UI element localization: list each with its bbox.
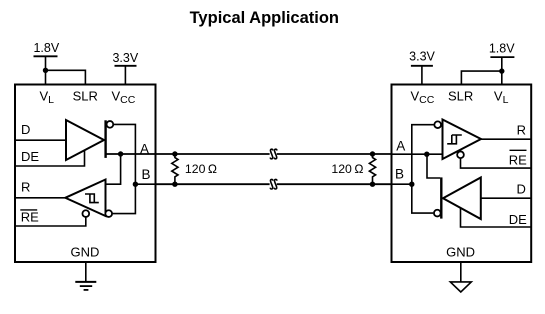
wire pin DE to driver enable (right) bbox=[461, 209, 531, 228]
wire B net vertical and to receiver inverting input bbox=[412, 125, 434, 213]
wire A net inside left IC bbox=[106, 153, 156, 155]
svg-text:1.8V: 1.8V bbox=[33, 41, 59, 55]
node A junction (left) bbox=[118, 151, 123, 156]
break symbol on bus A bbox=[270, 149, 277, 159]
wire bus line B bbox=[156, 183, 270, 185]
svg-text:B: B bbox=[395, 167, 404, 182]
driver U2 triangle bbox=[443, 178, 481, 220]
node A junction (right) bbox=[424, 152, 429, 157]
wire driver bubble to B net bbox=[113, 124, 136, 213]
driver U2 inverting bubble bbox=[434, 210, 441, 217]
wire A to receiver input bbox=[106, 154, 121, 184]
svg-text:3.3V: 3.3V bbox=[409, 50, 435, 64]
wire receiver output to pin R bbox=[481, 138, 531, 140]
wire GND pin down bbox=[85, 262, 87, 282]
receiver U2 enable bubble bbox=[457, 151, 464, 158]
wire junction to SLR pin (right) bbox=[461, 71, 501, 84]
svg-text:GND: GND bbox=[446, 244, 475, 259]
wire junction to SLR pin bbox=[46, 70, 86, 84]
svg-text:SLR: SLR bbox=[73, 89, 98, 104]
svg-text:D: D bbox=[517, 182, 526, 197]
receiver U2 inverting input bubble bbox=[434, 121, 441, 128]
wire RE to receiver enable (right) bbox=[461, 158, 531, 168]
svg-text:120 Ω: 120 Ω bbox=[331, 162, 363, 176]
svg-text:D: D bbox=[21, 122, 30, 137]
wire B pin to vertical bbox=[392, 183, 412, 185]
svg-text:DE: DE bbox=[21, 149, 39, 164]
driver U1 output bar bbox=[104, 120, 106, 158]
node junction 1.8V/SLR (right) bbox=[499, 68, 504, 73]
break symbol on bus B bbox=[270, 179, 277, 189]
svg-text:RE: RE bbox=[509, 153, 527, 168]
svg-text:R: R bbox=[517, 122, 526, 137]
receiver U1 hysteresis symbol bbox=[85, 194, 99, 203]
driver U1 triangle bbox=[66, 120, 104, 160]
svg-text:3.3V: 3.3V bbox=[112, 51, 138, 65]
resistor R1 120 ohm (left termination) bbox=[172, 151, 218, 187]
node B junction (right) bbox=[409, 182, 414, 187]
svg-text:RE: RE bbox=[21, 210, 39, 225]
wire 3.3V to VCC pin bbox=[124, 66, 126, 85]
wire 1.8V to VL pin (right) bbox=[501, 57, 503, 84]
wire pin D (right) bbox=[481, 197, 531, 199]
wire pin DE to driver enable bbox=[16, 149, 85, 166]
svg-text:GND: GND bbox=[71, 244, 100, 259]
wire pin D bbox=[16, 139, 66, 141]
driver U2 output bar bbox=[440, 177, 442, 218]
wire GND pin down (right) bbox=[460, 262, 462, 282]
supply 1.8V (left) bbox=[33, 41, 59, 56]
node B junction (left) bbox=[133, 182, 138, 187]
supply 1.8V (right) bbox=[489, 41, 515, 57]
wire 3.3V to VCC pin (right) bbox=[421, 66, 423, 85]
IC U2 body (right transceiver) bbox=[392, 85, 532, 263]
svg-text:1.8V: 1.8V bbox=[489, 41, 515, 55]
wire 1.8V to VL pin bbox=[45, 56, 47, 84]
wire pin RE to receiver enable bbox=[16, 217, 86, 226]
receiver U1 input bubble bbox=[105, 210, 112, 217]
receiver U2 hysteresis symbol bbox=[447, 135, 462, 144]
svg-text:B: B bbox=[141, 167, 150, 182]
wire driver output to A net (right) bbox=[427, 154, 440, 178]
svg-text:120 Ω: 120 Ω bbox=[185, 162, 217, 176]
svg-text:R: R bbox=[21, 180, 30, 195]
svg-text:DE: DE bbox=[509, 212, 527, 227]
receiver U1 enable bubble bbox=[82, 210, 89, 217]
driver U1 inverting bubble bbox=[107, 121, 114, 128]
ground (earth) symbol left bbox=[75, 282, 96, 290]
IC U1 body (left transceiver) bbox=[15, 85, 156, 263]
node junction 1.8V/SLR bbox=[43, 68, 48, 73]
receiver U1 triangle bbox=[65, 180, 105, 217]
ground (chassis arrow) symbol right bbox=[450, 282, 471, 292]
wire pin R to receiver output bbox=[16, 197, 65, 199]
svg-text:A: A bbox=[396, 139, 405, 154]
wire A net inside right IC bbox=[392, 153, 442, 155]
receiver U2 triangle bbox=[443, 120, 482, 160]
svg-text:A: A bbox=[140, 142, 149, 157]
supply 3.3V (right) bbox=[409, 50, 435, 66]
supply 3.3V (left) bbox=[112, 51, 138, 66]
wire B net to pin B bbox=[135, 183, 155, 185]
resistor R2 120 ohm (right termination) bbox=[331, 151, 375, 187]
svg-text:Typical Application: Typical Application bbox=[190, 9, 339, 27]
wire bus line A bbox=[156, 153, 270, 155]
svg-text:SLR: SLR bbox=[448, 89, 473, 104]
